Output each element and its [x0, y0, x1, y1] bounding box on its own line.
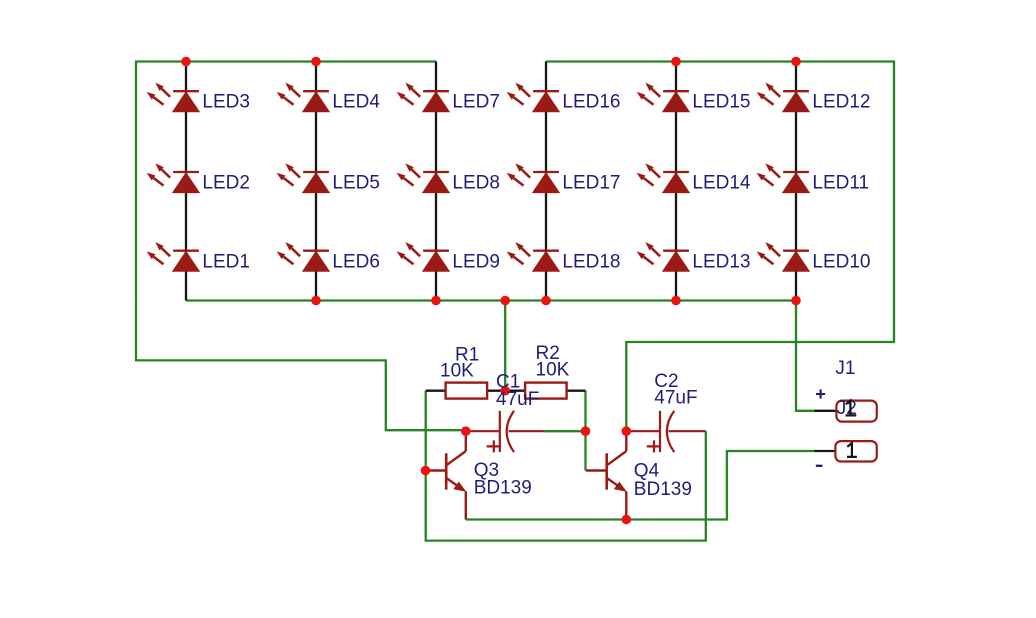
svg-text:BD139: BD139	[634, 479, 692, 500]
svg-text:LED3: LED3	[202, 92, 250, 113]
svg-text:LED5: LED5	[332, 172, 380, 193]
svg-text:LED12: LED12	[812, 92, 870, 113]
svg-text:LED9: LED9	[452, 251, 500, 272]
svg-text:LED1: LED1	[202, 251, 250, 272]
svg-text:LED2: LED2	[202, 172, 250, 193]
svg-text:LED7: LED7	[452, 92, 500, 113]
svg-text:LED18: LED18	[562, 251, 620, 272]
svg-text:LED6: LED6	[332, 251, 380, 272]
svg-text:LED16: LED16	[562, 92, 620, 113]
svg-text:LED13: LED13	[692, 251, 750, 272]
svg-text:LED10: LED10	[812, 251, 870, 272]
svg-text:10K: 10K	[536, 360, 570, 381]
svg-text:10K: 10K	[440, 361, 474, 382]
svg-text:LED11: LED11	[812, 172, 869, 193]
svg-text:BD139: BD139	[474, 478, 532, 499]
svg-text:J1: J1	[835, 358, 855, 379]
svg-text:47uF: 47uF	[654, 388, 697, 409]
svg-text:LED8: LED8	[452, 172, 500, 193]
svg-text:LED17: LED17	[562, 172, 620, 193]
svg-text:LED15: LED15	[692, 92, 750, 113]
svg-text:LED4: LED4	[332, 92, 380, 113]
svg-text:LED14: LED14	[692, 172, 751, 193]
svg-text:47uF: 47uF	[496, 389, 539, 410]
